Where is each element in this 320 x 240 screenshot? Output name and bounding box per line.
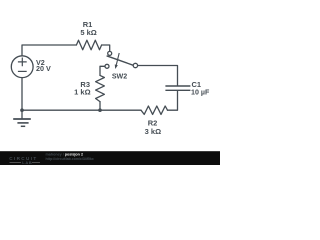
wire ground stem [21, 110, 23, 118]
svg-text:http://circuitlab.com/c/34f5kx: http://circuitlab.com/c/34f5kx [46, 157, 94, 161]
resistor R3 [96, 75, 105, 101]
resistor R2 [141, 106, 168, 114]
wire R1 to SW2 pole [102, 45, 110, 51]
wire source bottom [21, 78, 23, 111]
capacitor C1 [165, 86, 190, 90]
node dot source-rail junction [20, 108, 24, 112]
svg-text:SW2: SW2 [112, 73, 127, 81]
wire SW2 throw2 to C1 [138, 66, 178, 86]
svg-text:20 V: 20 V [36, 64, 51, 73]
watermark bar [0, 151, 220, 165]
svg-text:LAB: LAB [22, 160, 32, 165]
watermark logo LAB [10, 161, 41, 163]
svg-text:3 kΩ: 3 kΩ [145, 127, 161, 136]
wire R3 to rail [99, 102, 101, 111]
wire SW2 throw1 to R3 [100, 66, 105, 75]
svg-text:1 kΩ: 1 kΩ [74, 88, 90, 97]
wire C1 bottom to rail corner [168, 91, 178, 110]
svg-text:mahoney / posisjon 2: mahoney / posisjon 2 [46, 153, 84, 157]
switch SW2 [105, 51, 138, 69]
voltage source V2 [11, 56, 33, 78]
svg-text:5 kΩ: 5 kΩ [80, 28, 96, 37]
node dot R3-rail junction [98, 108, 102, 112]
wire top-left rail [22, 45, 76, 56]
wire bottom rail [22, 109, 141, 111]
svg-text:10 µF: 10 µF [191, 88, 210, 96]
ground [13, 119, 31, 126]
resistor R1 [76, 40, 101, 50]
